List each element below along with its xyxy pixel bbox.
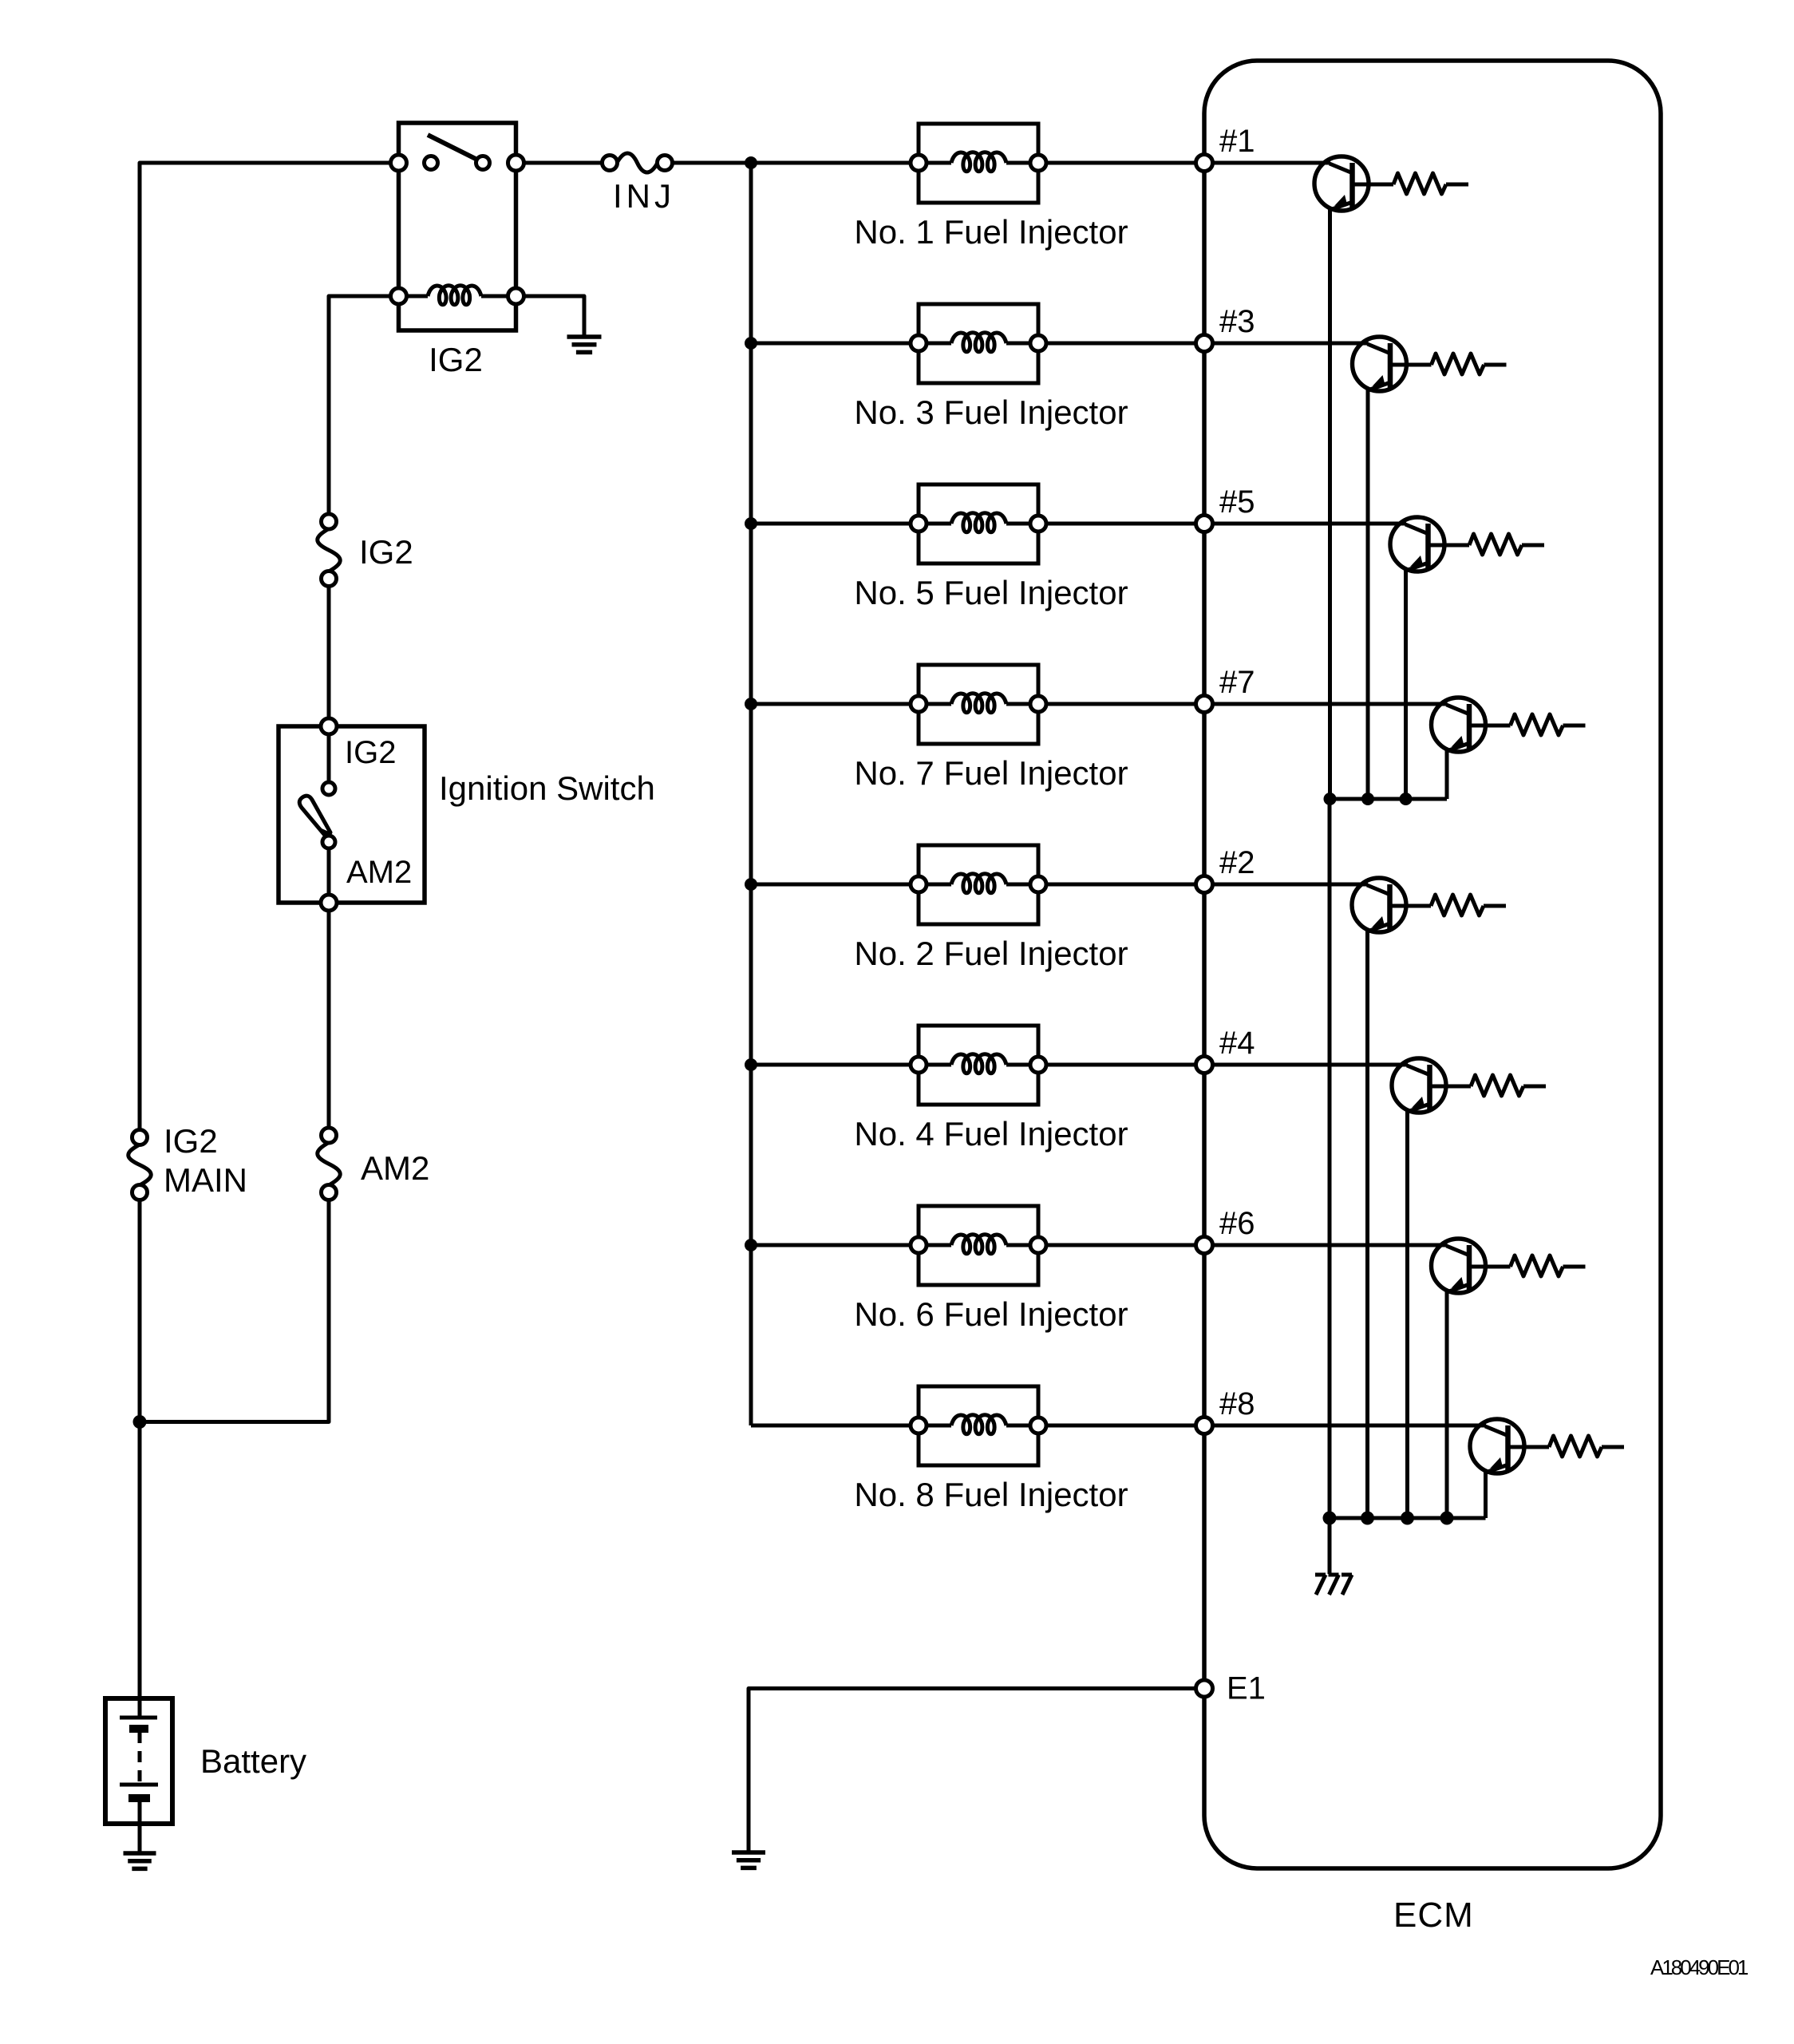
label AM2 (ignition switch) bbox=[346, 855, 412, 890]
svg-text:#3: #3 bbox=[1219, 304, 1255, 339]
label Battery bbox=[200, 1742, 306, 1780]
wire injector to ECM pin #2 bbox=[1046, 883, 1204, 887]
wire emitter Q8 down bbox=[1484, 1471, 1488, 1518]
label IG2 (relay) bbox=[429, 341, 483, 378]
svg-text:ECM: ECM bbox=[1393, 1896, 1474, 1935]
label No. 8 Fuel Injector bbox=[854, 1476, 1128, 1513]
relay IG2 pins bbox=[391, 155, 524, 304]
node bus junction row #4 bbox=[745, 1058, 757, 1071]
svg-text:IG2: IG2 bbox=[345, 735, 396, 770]
wire emitter Q2 down bbox=[1365, 930, 1369, 1518]
injector No. 7 Fuel Injector bbox=[911, 665, 1046, 744]
wire emitter Q5 down bbox=[1404, 569, 1408, 799]
wire bus to injector row #8 bbox=[751, 1424, 919, 1428]
ECM housing outline bbox=[1204, 61, 1661, 1868]
svg-text:No. 4 Fuel Injector: No. 4 Fuel Injector bbox=[854, 1115, 1128, 1152]
relay IG2 box bbox=[399, 123, 516, 330]
wire bus to injector row #6 bbox=[751, 1243, 919, 1247]
svg-text:IG2: IG2 bbox=[429, 341, 483, 378]
ignition switch contact upper bbox=[322, 782, 335, 795]
transistor Q6 with base resistor R6 bbox=[1432, 1239, 1586, 1293]
label Ignition Switch bbox=[439, 769, 655, 807]
relay IG2 switch contacts bbox=[425, 135, 490, 170]
node emitter bus upper junction Q3 bbox=[1361, 793, 1374, 805]
label #1 bbox=[1219, 124, 1255, 159]
svg-text:No. 1 Fuel Injector: No. 1 Fuel Injector bbox=[854, 213, 1128, 251]
injector No. 8 Fuel Injector bbox=[911, 1386, 1046, 1465]
svg-text:#1: #1 bbox=[1219, 124, 1255, 159]
fuse IG2 bbox=[318, 514, 341, 587]
svg-text:A180490E01: A180490E01 bbox=[1650, 1955, 1749, 1979]
label No. 1 Fuel Injector bbox=[854, 213, 1128, 251]
pin #8 (ECM) bbox=[1196, 1417, 1213, 1434]
pin #5 (ECM) bbox=[1196, 516, 1213, 532]
fuse AM2 bbox=[318, 1128, 341, 1200]
node junction battery line / AM2 branch bbox=[133, 1415, 147, 1429]
node emitter bus lower junction Q2 bbox=[1361, 1512, 1374, 1525]
wire relay to INJ fuse bbox=[524, 161, 603, 165]
svg-text:#7: #7 bbox=[1219, 665, 1255, 700]
pin #7 (ECM) bbox=[1196, 696, 1213, 713]
svg-text:#6: #6 bbox=[1219, 1206, 1255, 1241]
injector No. 1 Fuel Injector bbox=[911, 124, 1046, 203]
pin #1 (ECM) bbox=[1196, 155, 1213, 172]
svg-text:No. 2 Fuel Injector: No. 2 Fuel Injector bbox=[854, 935, 1128, 972]
relay IG2 coil bbox=[407, 286, 508, 305]
svg-text:IG2: IG2 bbox=[164, 1122, 218, 1160]
wire relay coil to ground bbox=[524, 296, 585, 337]
node emitter bus upper junction Q1 bbox=[1324, 793, 1337, 805]
svg-text:INJ: INJ bbox=[613, 177, 675, 215]
wire ignition switch to AM2 fuse bbox=[327, 911, 331, 1128]
wire injector to ECM pin #6 bbox=[1046, 1243, 1204, 1247]
transistor Q4 with base resistor R4 bbox=[1392, 1058, 1546, 1113]
ignition switch contact lower bbox=[322, 836, 335, 848]
label #7 bbox=[1219, 665, 1255, 700]
wire emitter Q7 down bbox=[1445, 749, 1449, 799]
pin #3 (ECM) bbox=[1196, 335, 1213, 352]
node bus junction top bbox=[745, 156, 757, 169]
node emitter bus upper junction Q5 bbox=[1400, 793, 1413, 805]
wire contact to AM2 pin bbox=[327, 848, 331, 895]
ground under battery bbox=[124, 1853, 156, 1868]
node bus junction row #6 bbox=[745, 1239, 757, 1251]
label #3 bbox=[1219, 304, 1255, 339]
label ECM bbox=[1393, 1896, 1474, 1935]
wire emitter bus upper bbox=[1330, 797, 1448, 801]
wire E1 to ground bbox=[749, 1689, 1196, 1853]
ignition switch pin AM2 bbox=[321, 895, 337, 911]
ignition switch box bbox=[279, 726, 425, 903]
svg-text:#8: #8 bbox=[1219, 1386, 1255, 1421]
battery B1 bbox=[105, 1698, 172, 1853]
wire injector to ECM pin #1 bbox=[1046, 161, 1204, 165]
svg-text:#4: #4 bbox=[1219, 1026, 1255, 1061]
node emitter bus lower junction rail bbox=[1323, 1512, 1337, 1525]
wire emitter Q3 down bbox=[1366, 389, 1370, 799]
label No. 3 Fuel Injector bbox=[854, 393, 1128, 431]
node bus junction row #2 bbox=[745, 878, 757, 891]
wire emitter bus lower bbox=[1330, 1516, 1486, 1520]
label #4 bbox=[1219, 1026, 1255, 1061]
wire pin #5 to transistor bbox=[1213, 522, 1407, 526]
label E1 bbox=[1227, 1671, 1266, 1706]
wire bus to injector row #5 bbox=[751, 522, 919, 526]
svg-text:MAIN: MAIN bbox=[164, 1161, 247, 1199]
transistor Q1 with base resistor R1 bbox=[1314, 156, 1468, 211]
ground internal (777 chassis) bbox=[1315, 1575, 1352, 1595]
ground at relay bbox=[567, 337, 602, 352]
label No. 2 Fuel Injector bbox=[854, 935, 1128, 972]
node bus junction row #7 bbox=[745, 698, 757, 710]
wire pin #1 to transistor bbox=[1213, 161, 1331, 165]
transistor Q5 with base resistor R5 bbox=[1390, 517, 1544, 571]
wire bus to injector row #1 bbox=[751, 161, 919, 165]
svg-text:AM2: AM2 bbox=[346, 855, 412, 890]
transistor Q7 with base resistor R7 bbox=[1432, 698, 1586, 752]
fuse INJ bbox=[603, 153, 673, 172]
label No. 7 Fuel Injector bbox=[854, 754, 1128, 792]
wire pin #4 to transistor bbox=[1213, 1063, 1409, 1067]
node bus junction row #3 bbox=[745, 337, 757, 350]
label No. 4 Fuel Injector bbox=[854, 1115, 1128, 1152]
pin #2 (ECM) bbox=[1196, 876, 1213, 893]
wire bus to injector row #2 bbox=[751, 883, 919, 887]
svg-text:No. 7 Fuel Injector: No. 7 Fuel Injector bbox=[854, 754, 1128, 792]
label A180490E01 bbox=[1650, 1955, 1749, 1979]
wire pin #3 to transistor bbox=[1213, 342, 1369, 346]
injector No. 5 Fuel Injector bbox=[911, 484, 1046, 563]
svg-text:AM2: AM2 bbox=[361, 1149, 429, 1187]
injector No. 6 Fuel Injector bbox=[911, 1206, 1046, 1285]
wire bus to injector row #7 bbox=[751, 702, 919, 706]
label IG2 (ignition switch) bbox=[345, 735, 396, 770]
node emitter bus lower junction Q4 bbox=[1401, 1512, 1414, 1525]
transistor Q2 with base resistor R2 bbox=[1352, 878, 1506, 932]
svg-text:No. 3 Fuel Injector: No. 3 Fuel Injector bbox=[854, 393, 1128, 431]
wire bus to injector row #3 bbox=[751, 342, 919, 346]
label No. 5 Fuel Injector bbox=[854, 574, 1128, 611]
wire emitter Q6 down bbox=[1445, 1291, 1449, 1518]
pin E1 (ECM) bbox=[1196, 1680, 1213, 1697]
svg-text:Ignition Switch: Ignition Switch bbox=[439, 769, 655, 807]
label #6 bbox=[1219, 1206, 1255, 1241]
pin #4 (ECM) bbox=[1196, 1057, 1213, 1073]
wire inside ignition switch bbox=[327, 734, 331, 782]
ignition switch lever bbox=[299, 796, 330, 838]
fuse IG2 MAIN bbox=[128, 1130, 152, 1200]
wire battery feed: top horizontal + left vertical main line bbox=[140, 163, 399, 1698]
wire bus to injector row #4 bbox=[751, 1063, 919, 1067]
svg-text:IG2: IG2 bbox=[359, 533, 413, 571]
wire IG2 fuse to ignition switch bbox=[327, 586, 331, 726]
label INJ bbox=[613, 177, 675, 215]
node emitter bus lower junction Q6 bbox=[1440, 1512, 1454, 1525]
wire injector to ECM pin #5 bbox=[1046, 522, 1204, 526]
wire INJ fuse to bus bbox=[672, 161, 751, 165]
wire injector to ECM pin #4 bbox=[1046, 1063, 1204, 1067]
wire ground rail between buses bbox=[1328, 799, 1332, 1518]
pin #6 (ECM) bbox=[1196, 1237, 1213, 1254]
label AM2 (fuse) bbox=[361, 1149, 429, 1187]
svg-text:Battery: Battery bbox=[200, 1742, 306, 1780]
svg-text:No. 6 Fuel Injector: No. 6 Fuel Injector bbox=[854, 1295, 1128, 1333]
wire emitter Q4 down bbox=[1405, 1110, 1409, 1518]
injector No. 3 Fuel Injector bbox=[911, 304, 1046, 383]
injector No. 2 Fuel Injector bbox=[911, 845, 1046, 924]
wire pin #6 to transistor bbox=[1213, 1243, 1448, 1247]
svg-text:No. 5 Fuel Injector: No. 5 Fuel Injector bbox=[854, 574, 1128, 611]
wire AM2 branch to junction bbox=[140, 1192, 329, 1422]
wire pin #8 to transistor bbox=[1213, 1424, 1487, 1428]
svg-text:No. 8 Fuel Injector: No. 8 Fuel Injector bbox=[854, 1476, 1128, 1513]
wire rail to internal ground bbox=[1328, 1518, 1332, 1574]
transistor Q3 with base resistor R3 bbox=[1353, 337, 1507, 391]
label #8 bbox=[1219, 1386, 1255, 1421]
svg-text:#2: #2 bbox=[1219, 845, 1255, 880]
label No. 6 Fuel Injector bbox=[854, 1295, 1128, 1333]
wire pin #7 to transistor bbox=[1213, 702, 1448, 706]
wire injector to ECM pin #7 bbox=[1046, 702, 1204, 706]
label IG2 MAIN bbox=[164, 1122, 247, 1199]
svg-text:E1: E1 bbox=[1227, 1671, 1266, 1706]
wire emitter Q1 down bbox=[1328, 208, 1332, 799]
ground at E1 bbox=[732, 1852, 765, 1868]
node bus junction row #5 bbox=[745, 517, 757, 530]
wire relay coil to IG2 fuse bbox=[329, 296, 391, 514]
label #5 bbox=[1219, 484, 1255, 520]
wire injector to ECM pin #3 bbox=[1046, 342, 1204, 346]
label #2 bbox=[1219, 845, 1255, 880]
injector No. 4 Fuel Injector bbox=[911, 1026, 1046, 1105]
wire injector to ECM pin #8 bbox=[1046, 1424, 1204, 1428]
wire pin #2 to transistor bbox=[1213, 883, 1369, 887]
wire injector bus vertical bbox=[749, 163, 753, 1425]
svg-text:#5: #5 bbox=[1219, 484, 1255, 520]
ignition switch pin IG2 bbox=[321, 718, 337, 734]
label IG2 (fuse) bbox=[359, 533, 413, 571]
transistor Q8 with base resistor R8 bbox=[1470, 1419, 1624, 1473]
